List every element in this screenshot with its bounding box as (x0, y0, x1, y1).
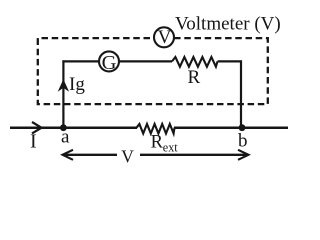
wire: resistor R to right vertical (218, 60, 243, 62)
svg-text:G: G (102, 52, 117, 74)
node b (junction dot) (239, 124, 246, 131)
Ig branch arrow (59, 80, 68, 90)
current arrow I on main bus (32, 122, 42, 133)
voltage measurement arrow (a to b), right half (140, 154, 249, 156)
resistor R (zigzag) (172, 57, 218, 67)
wire: left vertical branch (a up to galvanometer level) (62, 60, 64, 127)
svg-text:I: I (30, 131, 37, 153)
galvanometer G (99, 51, 119, 71)
wire: galvanometer to resistor R (119, 60, 172, 62)
svg-text:V: V (121, 146, 134, 166)
svg-text:a: a (61, 127, 70, 148)
svg-text:ext: ext (163, 141, 179, 155)
resistor R_ext (zigzag on main bus) (137, 124, 175, 134)
wire: right vertical branch down to b (240, 60, 242, 127)
voltmeter V (circle on dashed box top edge) (154, 27, 174, 47)
wire: horizontal from corner to galvanometer (62, 60, 98, 62)
svg-text:R: R (151, 132, 164, 152)
wire: main bus left segment (left end to R_ext) (10, 126, 137, 129)
svg-text:Voltmeter (V): Voltmeter (V) (175, 14, 281, 35)
wire: main bus right segment (R_ext to right end) (174, 126, 288, 129)
svg-text:Ig: Ig (69, 74, 85, 95)
node a (junction dot) (60, 124, 67, 131)
svg-text:V: V (158, 27, 172, 48)
svg-text:R: R (188, 67, 201, 88)
svg-text:b: b (238, 130, 248, 151)
voltage measurement arrow (a to b), left half (63, 150, 74, 160)
dashed voltmeter boundary box (38, 38, 268, 104)
